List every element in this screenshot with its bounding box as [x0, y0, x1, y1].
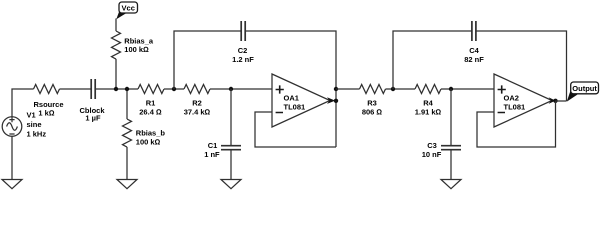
svg-text:100 kΩ: 100 kΩ	[124, 45, 149, 54]
resistor R1	[138, 85, 164, 94]
svg-text:100 kΩ: 100 kΩ	[136, 137, 161, 146]
wire Vcc to Rbias_a	[115, 19, 117, 32]
svg-text:V1: V1	[27, 111, 36, 120]
wire Rbias_b to ground	[126, 147, 128, 180]
capacitor C2	[241, 21, 245, 41]
wire C2 feedback left	[174, 31, 241, 89]
resistor Rsource	[34, 85, 60, 94]
svg-text:C4: C4	[469, 46, 479, 55]
wire C1 to ground	[230, 150, 232, 180]
svg-text:R2: R2	[192, 99, 202, 108]
ground under C3	[441, 180, 461, 189]
capacitor C1	[221, 146, 241, 150]
svg-text:R4: R4	[423, 99, 433, 108]
svg-text:26.4 Ω: 26.4 Ω	[139, 107, 162, 116]
svg-text:1 nF: 1 nF	[204, 150, 220, 159]
svg-text:1 kHz: 1 kHz	[27, 129, 47, 138]
wire V1 bottom to ground	[11, 136, 13, 179]
op-amp U2 OA2	[494, 74, 556, 127]
svg-text:OA2: OA2	[504, 93, 519, 102]
wire R1 to R2	[164, 88, 184, 90]
wire OA2 output to flag	[556, 100, 567, 102]
resistor R4	[415, 85, 441, 94]
wire R3 to R4	[386, 88, 416, 90]
svg-text:C3: C3	[427, 141, 437, 150]
node junction OA1 out to R3	[334, 87, 338, 91]
wire C3 to ground	[450, 150, 452, 180]
svg-text:C2: C2	[238, 46, 248, 55]
node junction OA2 output	[553, 99, 557, 103]
svg-text:1.91 kΩ: 1.91 kΩ	[415, 107, 442, 116]
node B junction R2/C1	[229, 87, 233, 91]
wire OA1 inverting feedback	[255, 112, 336, 147]
svg-text:C1: C1	[208, 141, 218, 150]
voltage source V1	[2, 117, 22, 137]
capacitor C3	[441, 146, 461, 150]
wire C4 feedback right	[476, 31, 567, 101]
node C junction R3/R4/C4	[391, 87, 395, 91]
svg-text:Rbias_a: Rbias_a	[124, 36, 154, 45]
svg-text:Rbias_b: Rbias_b	[136, 129, 166, 138]
wire OA1 out to R3	[336, 88, 360, 90]
svg-text:806 Ω: 806 Ω	[362, 107, 383, 116]
svg-text:1 µF: 1 µF	[85, 114, 101, 123]
svg-text:Output: Output	[572, 84, 597, 93]
svg-text:37.4 kΩ: 37.4 kΩ	[184, 107, 211, 116]
node D junction R4/C3	[449, 87, 453, 91]
svg-text:1.2 nF: 1.2 nF	[232, 55, 254, 64]
svg-text:TL081: TL081	[504, 102, 526, 111]
node A junction R1/R2/C2	[172, 87, 176, 91]
resistor R2	[184, 85, 210, 94]
Vcc flag	[116, 2, 137, 19]
wire Rbias_b branch	[126, 89, 128, 119]
svg-text:10 nF: 10 nF	[422, 150, 442, 159]
Output flag	[567, 82, 599, 102]
wire R4 to OA2 + input	[441, 88, 494, 90]
ground under Rbias_b	[117, 180, 137, 189]
svg-text:TL081: TL081	[284, 102, 306, 111]
node junction OA1 output	[334, 99, 338, 103]
svg-text:R1: R1	[146, 99, 156, 108]
resistor Rbias_a	[112, 31, 121, 59]
capacitor C4	[472, 21, 476, 41]
svg-text:OA1: OA1	[284, 93, 299, 102]
node junction Rbias_a	[114, 87, 118, 91]
ground under C1	[221, 180, 241, 189]
wire Rsource to Cblock	[60, 88, 92, 90]
svg-text:Vcc: Vcc	[122, 3, 135, 12]
resistor Rbias_b	[123, 119, 132, 147]
ground under V1	[2, 180, 22, 189]
wire Rbias_a to main line	[115, 59, 117, 89]
svg-text:1 kΩ: 1 kΩ	[38, 109, 54, 118]
svg-text:82 nF: 82 nF	[464, 55, 484, 64]
wire R2 to OA1 + input	[210, 88, 272, 90]
svg-text:R3: R3	[367, 99, 377, 108]
wire OA2 inverting feedback	[477, 101, 556, 147]
svg-text:sine: sine	[27, 120, 42, 129]
capacitor Cblock	[91, 79, 95, 99]
wire C4 feedback left	[393, 31, 472, 89]
op-amp U1 OA1	[272, 74, 335, 127]
wire C2 feedback right	[245, 31, 336, 147]
node junction Rbias_b	[125, 87, 129, 91]
wire C1 branch	[230, 89, 232, 146]
wire C3 branch	[450, 89, 452, 146]
wire Cblock to R1	[95, 88, 138, 90]
wire V1 top to main line	[12, 89, 34, 117]
resistor R3	[360, 85, 386, 94]
